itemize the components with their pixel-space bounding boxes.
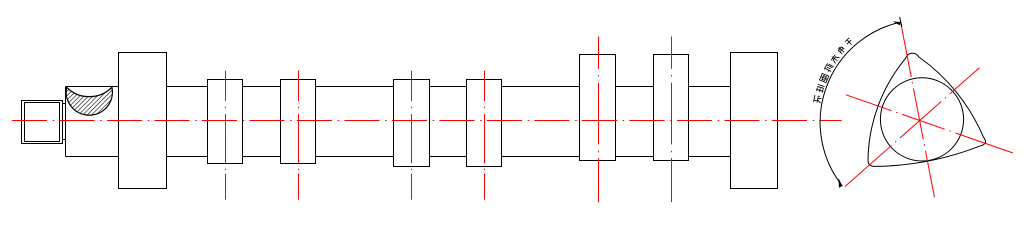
shaft segment C3-C4 top (430, 86, 467, 88)
centerline journal J1 (598, 37, 600, 203)
dimension tick top (900, 17, 902, 27)
shaft shoulder at keyseat section (65, 87, 67, 157)
shaft segment C1-C2 bottom (243, 156, 281, 158)
neck step upper edge (63, 103, 66, 105)
centerline cam lobe C3 (411, 71, 413, 200)
centerline cam lobe C1 (225, 71, 227, 200)
shaft segment C3-C4 bottom (430, 156, 467, 158)
shaft bottom line keyseat section (66, 156, 119, 158)
flange F1 (119, 53, 167, 189)
centerline cam lobe C4 (484, 71, 486, 200)
shaft segment C2-C3 top (316, 86, 394, 88)
cam detail centerline A (shallow) (846, 95, 1013, 153)
shaft segment J2-F2 top (689, 86, 731, 88)
shaft segment J1-J2 top (616, 86, 654, 88)
woodruff keyseat (hatched crescent) (66, 87, 112, 115)
threaded end inner (thread root) outline (25, 103, 60, 142)
cam lobe C2 (281, 80, 316, 164)
shaft segment C4-J1 bottom (502, 156, 580, 158)
journal J2 (654, 55, 689, 161)
shaft segment flange to C1 bottom (167, 156, 208, 158)
cam detail centerline C (near vertical) (901, 24, 935, 198)
shaft segment C4-J1 top (502, 86, 580, 88)
cam detail centerline B (diagonal) (845, 68, 980, 187)
angular dimension arc (820, 22, 901, 186)
cam lobe C4 (467, 80, 502, 167)
dimension arrowhead bottom (839, 178, 843, 188)
cam lobe C3 (394, 80, 430, 167)
shaft segment J1-J2 bottom (616, 156, 654, 158)
flange F2 (731, 53, 778, 189)
shaft segment C1-C2 top (243, 86, 281, 88)
cam detail profile (868, 53, 986, 166)
centerline journal J2 (671, 37, 673, 203)
shaft top line keyseat section (66, 86, 119, 88)
dimension arrowhead top (893, 21, 901, 25)
cam detail base circle (880, 78, 963, 161)
threaded end outer outline (22, 101, 63, 144)
neck step lower edge (63, 139, 66, 141)
shaft segment C2-C3 bottom (316, 156, 394, 158)
annotation text: stylized CJK characters along dimension arc (814, 38, 854, 103)
cam lobe C1 (208, 80, 243, 164)
journal J1 (580, 55, 616, 161)
shaft segment flange to C1 top (167, 86, 208, 88)
shaft centerline (horizontal red dash-dot) (12, 120, 842, 122)
shaft segment J2-F2 bottom (689, 156, 731, 158)
centerline cam lobe C2 (298, 71, 300, 200)
